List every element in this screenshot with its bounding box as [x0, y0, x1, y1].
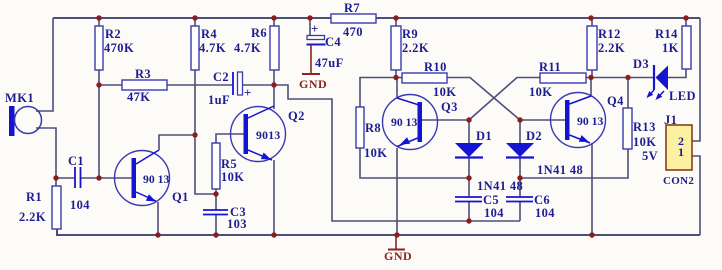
svg-text:GND: GND	[299, 77, 327, 91]
svg-text:104: 104	[70, 198, 90, 212]
svg-text:CON2: CON2	[663, 175, 694, 187]
svg-text:470: 470	[343, 25, 363, 39]
svg-text:R13: R13	[633, 120, 656, 134]
svg-text:4.7K: 4.7K	[234, 41, 261, 55]
svg-text:10K: 10K	[633, 135, 656, 149]
svg-text:R7: R7	[344, 1, 360, 15]
svg-text:470K: 470K	[104, 41, 134, 55]
svg-text:Q4: Q4	[607, 94, 624, 108]
svg-text:1uF: 1uF	[208, 93, 230, 107]
svg-text:R14: R14	[655, 27, 678, 41]
svg-text:R8: R8	[365, 121, 381, 135]
svg-text:R6: R6	[251, 26, 267, 40]
svg-text:R12: R12	[598, 27, 621, 41]
svg-text:+: +	[311, 21, 319, 36]
svg-text:10K: 10K	[364, 146, 387, 160]
svg-text:C4: C4	[325, 35, 341, 49]
svg-text:4.7K: 4.7K	[199, 41, 226, 55]
svg-text:104: 104	[484, 206, 504, 220]
svg-text:1K: 1K	[662, 41, 679, 55]
svg-text:90 13: 90 13	[391, 116, 417, 129]
svg-text:5V: 5V	[642, 149, 658, 163]
svg-text:C6: C6	[534, 193, 550, 207]
svg-text:R10: R10	[424, 60, 447, 74]
svg-text:Q3: Q3	[441, 100, 458, 114]
svg-text:LED: LED	[669, 89, 696, 103]
svg-text:1N41 48: 1N41 48	[537, 163, 583, 177]
svg-text:90 13: 90 13	[577, 115, 603, 128]
svg-text:10K: 10K	[529, 85, 552, 99]
svg-text:47K: 47K	[127, 90, 150, 104]
svg-text:104: 104	[535, 206, 555, 220]
svg-text:103: 103	[227, 217, 247, 231]
svg-text:2.2K: 2.2K	[19, 210, 46, 224]
svg-text:C5: C5	[483, 193, 499, 207]
svg-text:R9: R9	[402, 27, 418, 41]
svg-text:47uF: 47uF	[315, 56, 344, 70]
svg-text:2.2K: 2.2K	[598, 41, 625, 55]
svg-text:1N41 48: 1N41 48	[477, 179, 523, 193]
svg-text:Q2: Q2	[288, 109, 305, 123]
svg-text:D2: D2	[526, 129, 542, 143]
svg-text:MK1: MK1	[5, 91, 34, 105]
svg-text:10K: 10K	[221, 170, 244, 184]
svg-text:D3: D3	[633, 57, 649, 71]
svg-text:R3: R3	[135, 67, 151, 81]
svg-text:R4: R4	[201, 27, 217, 41]
svg-text:D1: D1	[476, 129, 492, 143]
svg-text:90 13: 90 13	[143, 173, 169, 186]
svg-text:R11: R11	[539, 60, 561, 74]
svg-text:R5: R5	[221, 157, 237, 171]
svg-text:10K: 10K	[433, 85, 456, 99]
svg-text:+: +	[244, 85, 252, 100]
svg-text:1: 1	[678, 145, 684, 159]
svg-text:9013: 9013	[256, 129, 281, 142]
svg-text:2.2K: 2.2K	[402, 41, 429, 55]
svg-text:J1: J1	[664, 113, 677, 127]
svg-text:C1: C1	[68, 154, 84, 168]
svg-text:R2: R2	[105, 27, 121, 41]
svg-text:Q1: Q1	[172, 190, 189, 204]
svg-text:GND: GND	[384, 249, 412, 263]
svg-text:C2: C2	[213, 70, 229, 84]
svg-text:R1: R1	[26, 190, 42, 204]
